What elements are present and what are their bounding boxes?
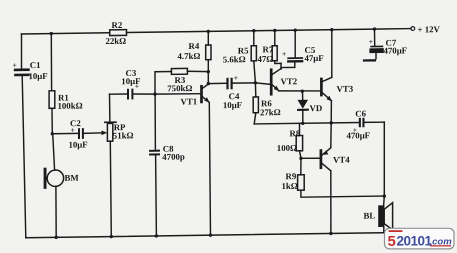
node: R3-R4 junction xyxy=(207,70,210,73)
svg-text:VT3: VT3 xyxy=(337,84,354,94)
capacitor C6 xyxy=(347,108,385,140)
svg-text:5: 5 xyxy=(388,233,396,250)
svg-text:VT2: VT2 xyxy=(281,76,298,86)
wire: VT3 collector to rail xyxy=(331,30,333,78)
node: R5-R6-VT2 base junction xyxy=(254,81,257,84)
svg-text:10μF: 10μF xyxy=(29,71,48,81)
node: rail-C7 junction xyxy=(373,27,376,30)
svg-text:470μF: 470μF xyxy=(347,130,371,140)
capacitor C3 xyxy=(110,68,156,100)
transistor VT2 xyxy=(271,63,298,94)
microphone BM xyxy=(44,133,80,237)
node: BM-ground junction xyxy=(55,236,58,239)
svg-text:20101: 20101 xyxy=(397,233,433,248)
node: rail-R7 junction xyxy=(273,29,276,32)
svg-text:BM: BM xyxy=(65,173,80,183)
node: VT1 base junction xyxy=(153,92,156,95)
svg-text:+: + xyxy=(13,61,17,70)
svg-text:4.7kΩ: 4.7kΩ xyxy=(178,51,201,61)
svg-text:VT1: VT1 xyxy=(181,96,198,106)
capacitor C4 xyxy=(208,73,255,110)
speaker BL xyxy=(364,196,393,233)
resistor R6 xyxy=(253,82,281,123)
wire: junction to VT4 base xyxy=(301,157,320,159)
node: R1-C2-BM junction xyxy=(51,132,54,135)
wire: C6 to BL node xyxy=(383,122,385,196)
wire: C4 junction to VT2 base xyxy=(255,83,270,85)
svg-text:10μF: 10μF xyxy=(223,100,242,110)
svg-text:1kΩ: 1kΩ xyxy=(282,181,298,191)
transistor VT3 xyxy=(321,77,353,123)
svg-text:5.6kΩ: 5.6kΩ xyxy=(223,54,246,64)
svg-text:+: + xyxy=(234,73,238,82)
svg-text:100Ω: 100Ω xyxy=(277,143,297,153)
node: rail-R5 junction xyxy=(252,29,255,32)
wire: VT2 emitter to VT3 base xyxy=(279,90,320,91)
watermark 520101.com xyxy=(385,228,455,250)
capacitor C1 xyxy=(13,34,48,238)
wire: +12V top rail xyxy=(22,29,412,34)
wire: bottom ground rail xyxy=(26,233,384,238)
svg-text:4700p: 4700p xyxy=(162,152,185,162)
capacitor C7 xyxy=(363,29,407,62)
node: VT1 emitter-ground junction xyxy=(209,233,212,236)
transistor VT4 xyxy=(321,123,350,234)
svg-text:BL: BL xyxy=(364,210,376,220)
capacitor C2 xyxy=(52,118,87,150)
svg-text:47Ω: 47Ω xyxy=(258,54,274,64)
svg-text:C6: C6 xyxy=(355,108,366,118)
node: C8-ground junction xyxy=(155,234,158,237)
capacitor C8 xyxy=(149,94,185,236)
node: rail-R4 junction xyxy=(207,30,210,33)
wire: output bus (R6/VD/R8 to C6) xyxy=(254,122,359,123)
node: rail-C5 junction xyxy=(294,28,297,31)
wire: C2 to RP wiper with arrow xyxy=(84,130,107,135)
svg-text:C2: C2 xyxy=(70,118,81,128)
svg-text:100kΩ: 100kΩ xyxy=(58,101,83,111)
svg-text:+: + xyxy=(369,37,373,46)
svg-text:47μF: 47μF xyxy=(304,53,323,63)
svg-text:R4: R4 xyxy=(189,41,200,51)
svg-text:VD: VD xyxy=(310,103,323,113)
svg-text:750kΩ: 750kΩ xyxy=(167,83,192,93)
node: RP-ground junction xyxy=(110,235,113,238)
svg-text:27kΩ: 27kΩ xyxy=(260,107,281,117)
svg-text:R9: R9 xyxy=(286,171,297,181)
svg-text:22kΩ: 22kΩ xyxy=(106,36,127,46)
svg-text:10μF: 10μF xyxy=(121,76,140,86)
node: rail-VT3 junction xyxy=(330,28,333,31)
svg-text:+: + xyxy=(282,49,286,58)
svg-text:+ 12V: + 12V xyxy=(418,24,441,34)
resistor R3 xyxy=(155,68,208,94)
svg-text:10μF: 10μF xyxy=(69,139,88,149)
capacitor C5 xyxy=(281,30,324,68)
node: C6-R9-BL junction xyxy=(383,194,386,197)
resistor R1 xyxy=(49,33,83,134)
node: VT4 collector-ground junction xyxy=(329,232,332,235)
node: VD anode junction xyxy=(301,89,304,92)
svg-text:470μF: 470μF xyxy=(384,45,408,55)
node: rail-R1 junction xyxy=(50,32,53,35)
svg-text:R8: R8 xyxy=(290,128,301,138)
resistor R8 xyxy=(277,123,303,158)
resistor R7 xyxy=(258,30,282,64)
transistor VT1 xyxy=(155,84,211,236)
wire: R4 to VT1 collector xyxy=(207,72,209,84)
node: VT1 collector-C4 junction xyxy=(207,82,210,85)
svg-text:VT4: VT4 xyxy=(333,155,350,165)
svg-text:C1: C1 xyxy=(30,60,41,70)
svg-text:R2: R2 xyxy=(112,20,123,30)
potentiometer RP xyxy=(105,94,134,237)
diode VD xyxy=(297,91,322,123)
node: R8-R9-VT4 base junction xyxy=(299,157,302,160)
node: VD-output junction xyxy=(301,122,304,125)
terminal: +12V xyxy=(411,24,441,34)
resistor R5 xyxy=(223,31,257,84)
resistor R2 xyxy=(106,20,127,46)
resistor R4 xyxy=(178,31,212,72)
resistor R9 xyxy=(282,157,385,197)
node: emitters-output junction xyxy=(330,121,333,124)
svg-text:51kΩ: 51kΩ xyxy=(113,130,134,140)
